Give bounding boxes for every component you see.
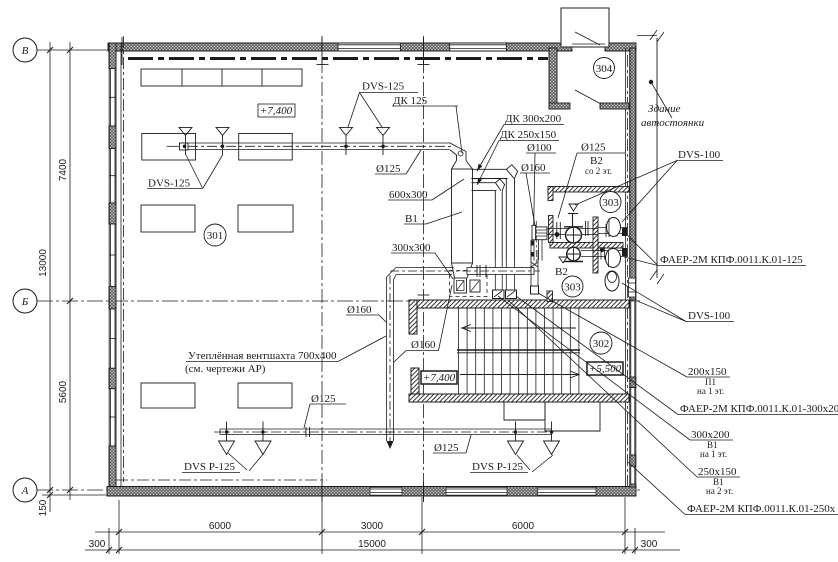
duct bottom axis — [390, 270, 540, 272]
wall to building connector line — [637, 35, 657, 37]
row of 4 cabinets top — [141, 69, 302, 86]
svg-text:301: 301 — [207, 230, 224, 242]
left dimension ticks — [47, 47, 73, 498]
wall opening grille right — [629, 278, 636, 297]
grid vertical x=322 — [321, 36, 323, 500]
room 304 bottom wall right — [600, 103, 629, 109]
room 304 left wall — [549, 48, 557, 109]
left dimension chain lines — [50, 42, 70, 512]
duct main axis dash-dot — [188, 145, 452, 147]
right wall inner dash-dot — [627, 55, 629, 490]
svg-text:13000: 13000 — [38, 249, 49, 277]
riser dash-dot axis — [535, 221, 537, 263]
intake T symbol — [568, 214, 578, 229]
svg-text:Ø125: Ø125 — [581, 142, 606, 154]
diffuser DVS P-125 no.2 — [255, 422, 271, 455]
left wall inner dash-dot — [123, 36, 125, 482]
svg-text:+5,500: +5,500 — [589, 363, 622, 375]
svg-text:Утеплённая вентшахта 700х400: Утеплённая вентшахта 700х400 — [188, 350, 337, 362]
svg-text:ДК 300х200: ДК 300х200 — [505, 113, 562, 125]
svg-text:15000: 15000 — [358, 539, 386, 550]
left wall edge lines — [109, 43, 116, 496]
svg-text:3000: 3000 — [361, 521, 384, 532]
svg-text:Ø125: Ø125 — [434, 442, 459, 454]
grid line В — [37, 49, 110, 51]
label 300х300 — [391, 242, 453, 279]
small air triangle lower — [559, 257, 567, 263]
svg-text:DVS-125: DVS-125 — [148, 178, 191, 190]
floor grille boxes П1/В1 — [493, 290, 517, 299]
room 303 mid wall — [550, 243, 623, 249]
level mark +5,500 — [587, 362, 623, 375]
svg-text:304: 304 — [596, 63, 613, 75]
grid line Б — [37, 300, 640, 302]
left dim extension lines — [42, 494, 108, 496]
svg-text:ДК 125: ДК 125 — [393, 95, 428, 107]
grid line А — [37, 489, 640, 491]
room number 303 upper — [600, 192, 621, 213]
svg-text:В1: В1 — [405, 213, 418, 225]
svg-text:300х300: 300х300 — [392, 242, 431, 254]
svg-text:ФАЕР-2М КПФ.0011.К.01-300х200: ФАЕР-2М КПФ.0011.К.01-300х200 — [680, 403, 838, 415]
label Ø125 mid — [375, 150, 421, 175]
right wall edge lines — [630, 48, 636, 487]
fan B2 lower — [564, 247, 583, 261]
duct drops to floor grilles — [495, 261, 514, 291]
svg-text:ДК 250х150: ДК 250х150 — [500, 129, 557, 141]
riser box below stairs A — [504, 402, 545, 420]
room 304 door swing — [575, 90, 601, 104]
diffuser DVS-125 no.4 — [377, 127, 390, 155]
left wall window mullions — [110, 97, 117, 417]
svg-text:6000: 6000 — [209, 521, 232, 532]
room 303 left wall stub lower — [549, 216, 554, 243]
wall top — [108, 43, 636, 51]
diffuser DVS-125 no.3 — [340, 127, 353, 155]
label DVS-100 lower — [622, 283, 734, 322]
room 303 center wall stub — [593, 217, 598, 273]
label Ø125 В2 со 2 эт. — [558, 142, 625, 219]
label Ø125 bottom left — [304, 393, 346, 428]
svg-text:В: В — [22, 45, 29, 57]
room 303 wall corner stub — [548, 187, 553, 201]
duct DK 300x200 horizontal + elbow down — [471, 165, 517, 261]
table row D right — [238, 383, 292, 408]
heavy dash-dot line below top wall — [128, 57, 548, 60]
fan duct horizontal — [542, 229, 598, 235]
label Ø100 — [526, 142, 556, 220]
svg-text:150: 150 — [38, 499, 49, 516]
diffuser DVS-125 no.1 — [179, 127, 192, 155]
diffuser DVS P-125 no.4 — [544, 422, 560, 455]
svg-text:автостоянки: автостоянки — [641, 117, 705, 129]
right wall inner face line — [625, 48, 627, 487]
label ДК 250х150 — [477, 129, 559, 185]
svg-text:300: 300 — [89, 539, 106, 550]
label 250x150 В1 2эт — [508, 300, 740, 496]
room 303 top wall — [548, 187, 629, 193]
wall right (hatch segments with windows) — [630, 48, 636, 487]
stair wall top — [409, 300, 629, 308]
bottom wall edge lines — [107, 487, 636, 497]
junction dots on duct — [221, 145, 385, 149]
vent shaft elbow — [387, 268, 397, 442]
wall left (hatch segments with windows) — [109, 43, 116, 495]
label DVS-125 lower left — [147, 155, 223, 190]
svg-text:600х300: 600х300 — [389, 189, 428, 201]
oval device DVS-100 no.1 — [607, 218, 621, 237]
riser duct Ø100/Ø160 upper — [532, 219, 536, 240]
left wall windows — [111, 69, 116, 446]
svg-text:Б: Б — [21, 296, 29, 308]
right wall windows — [631, 300, 635, 484]
svg-text:DVS-125: DVS-125 — [362, 81, 405, 93]
room number 303 lower — [562, 276, 583, 297]
label 300x200 В1 1эт — [498, 296, 733, 459]
air symbol triangle — [569, 204, 578, 211]
svg-text:Ø160: Ø160 — [521, 162, 546, 174]
grid bubble B (В) — [13, 38, 37, 62]
riser duct lower section — [531, 240, 542, 261]
duct stub to oval device 1 — [598, 224, 628, 237]
junction dot 3 — [600, 248, 604, 252]
label Ø160 right of shaft — [394, 285, 452, 362]
label ФАЕР-300х200 — [516, 296, 838, 415]
svg-text:ФАЕР-2М КПФ.0011.К.01-125: ФАЕР-2М КПФ.0011.К.01-125 — [660, 254, 803, 266]
svg-text:5600: 5600 — [58, 380, 69, 403]
room 304 door opening top — [572, 43, 605, 45]
svg-text:Ø100: Ø100 — [527, 142, 552, 154]
stair wall bottom — [409, 394, 629, 402]
riser flange marks — [531, 241, 534, 257]
table row C right — [238, 205, 293, 232]
label DVS Р-125 right — [470, 455, 553, 473]
svg-text:+7,400: +7,400 — [260, 105, 293, 117]
svg-text:со 2 эт.: со 2 эт. — [585, 166, 612, 176]
wall bottom — [107, 487, 636, 497]
label ДК 300х200 — [477, 113, 564, 171]
duct stub line to wall — [167, 145, 180, 147]
level mark +7,400 stairs — [421, 371, 457, 384]
label Ø160 upper — [520, 162, 550, 226]
table row B right — [239, 134, 293, 161]
fan duct flanges — [586, 221, 589, 236]
vent shaft axis — [389, 275, 391, 445]
svg-text:6000: 6000 — [512, 521, 535, 532]
damper circle on neck — [458, 151, 463, 156]
table row D left — [141, 383, 195, 408]
grid vertical x=423.5 — [423, 36, 425, 500]
svg-text:300: 300 — [641, 539, 658, 550]
interior dash-dot above bottom wall — [116, 479, 327, 481]
diffuser DVS-125 no.2 — [216, 127, 229, 155]
fan B2 upper — [564, 227, 583, 243]
duct В2 from 2nd floor — [557, 222, 561, 239]
riser box below stairs B — [545, 402, 600, 431]
oval device DVS-100 no.2 — [606, 249, 621, 268]
room number 301 — [204, 224, 226, 246]
room 304 shaft box above — [561, 8, 609, 47]
label ФАЕР-125 — [623, 231, 806, 266]
stair up arrow (upper flight) — [461, 325, 576, 332]
top wall windows — [338, 45, 506, 49]
label DVS-125 upper — [348, 81, 418, 128]
V1 shaft body 600x300 — [452, 161, 473, 264]
junction dots bottom duct — [225, 430, 554, 434]
table row C left — [141, 205, 195, 232]
duct flanges — [477, 265, 486, 277]
bottom dim extension lines — [109, 497, 635, 554]
stair landing lines — [457, 349, 580, 351]
svg-text:ФАЕР-2М КПФ.0011.К.01-250х: ФАЕР-2М КПФ.0011.К.01-250х — [687, 503, 836, 515]
svg-text:на 1 эт.: на 1 эт. — [700, 449, 727, 459]
room number 304 — [594, 58, 615, 79]
room number 302 — [590, 332, 612, 354]
stair wall left upper — [409, 300, 417, 334]
svg-text:Ø125: Ø125 — [376, 163, 401, 175]
duct bottom horizontal run — [396, 268, 534, 275]
junction dot 2 — [555, 232, 560, 237]
grid crossing ticks bottom wall — [322, 482, 424, 502]
level mark +7,400 room 301 — [258, 104, 295, 117]
stair treads — [459, 308, 579, 394]
duct main horizontal Ø125 — [180, 143, 450, 150]
duct stub to oval device 2 — [581, 247, 628, 260]
svg-text:+7,400: +7,400 — [423, 372, 456, 384]
svg-text:302: 302 — [593, 338, 610, 350]
svg-text:на 2 эт.: на 2 эт. — [706, 486, 733, 496]
duct bottom Ø125 horizontal — [220, 429, 552, 435]
table row B left — [142, 134, 196, 161]
grille box right of funnel — [470, 280, 480, 292]
svg-text:Ø125: Ø125 — [311, 393, 336, 405]
grid tick marks — [317, 65, 430, 296]
V1 funnel — [452, 263, 473, 293]
label ДК 125 — [392, 95, 462, 153]
duct bottom axis dash-dot — [214, 431, 556, 433]
label ФАЕР-250 bottom — [628, 462, 838, 515]
stair arrow (lower flight) — [460, 371, 579, 378]
grid bubble А — [13, 478, 37, 502]
label Здание автостоянки — [641, 80, 705, 129]
grid bubble Б — [13, 289, 37, 313]
svg-text:(см. чертежи АР): (см. чертежи АР) — [185, 363, 266, 375]
bottom dimension lines — [85, 532, 680, 550]
vent shaft bottom arrow — [387, 441, 394, 449]
left wall inner face line — [120, 43, 122, 495]
label В1 — [404, 212, 462, 225]
svg-text:Здание: Здание — [648, 103, 681, 115]
room 303 left wall stub bottom — [547, 291, 553, 302]
svg-text:DVS Р-125: DVS Р-125 — [184, 461, 236, 473]
svg-text:Ø160: Ø160 — [347, 304, 372, 316]
grid crossing ticks top wall — [122, 37, 424, 65]
diffuser DVS P-125 no.1 — [219, 422, 235, 455]
label Утеплённая вентшахта — [185, 336, 386, 375]
room 304 bottom wall left — [549, 103, 570, 109]
label 200x150 П1 — [538, 293, 730, 396]
duct damper box — [180, 143, 189, 150]
duct elbow neck into V1 — [449, 143, 466, 161]
round device no.3 — [605, 271, 619, 291]
adjacent building edge line — [650, 30, 664, 284]
svg-text:DVS-100: DVS-100 — [688, 310, 731, 322]
svg-text:А: А — [21, 485, 29, 497]
svg-text:303: 303 — [564, 282, 581, 294]
svg-text:7400: 7400 — [58, 158, 69, 181]
dashed floor opening around funnel — [450, 271, 488, 297]
wall grille dark mark — [622, 228, 627, 236]
label DVS P-125 left — [182, 453, 264, 473]
wall grille dark mark 2 — [622, 248, 627, 256]
silencer block — [536, 227, 547, 240]
svg-text:303: 303 — [602, 197, 619, 209]
bottom wall windows — [370, 487, 596, 495]
duct riser with cross — [531, 250, 539, 294]
duct DK 250x150 horizontal + elbow down — [471, 179, 504, 261]
svg-text:на 1 эт.: на 1 эт. — [697, 386, 724, 396]
svg-text:Ø160: Ø160 — [411, 339, 436, 351]
svg-text:DVS-100: DVS-100 — [678, 149, 721, 161]
duct coupling flanges bottom — [306, 427, 310, 437]
label Ø125 bottom right — [433, 435, 471, 454]
label 600х300 — [388, 179, 464, 201]
svg-text:DVS Р-125: DVS Р-125 — [472, 461, 524, 473]
label DVS-100 top — [575, 149, 723, 222]
bottom dimension ticks — [106, 529, 638, 553]
svg-text:В2: В2 — [555, 266, 568, 278]
label Ø160 left of shaft — [346, 304, 386, 322]
top wall edge lines — [108, 43, 636, 51]
diffuser DVS P-125 no.3 — [508, 422, 524, 455]
stair wall left lower — [411, 368, 419, 402]
